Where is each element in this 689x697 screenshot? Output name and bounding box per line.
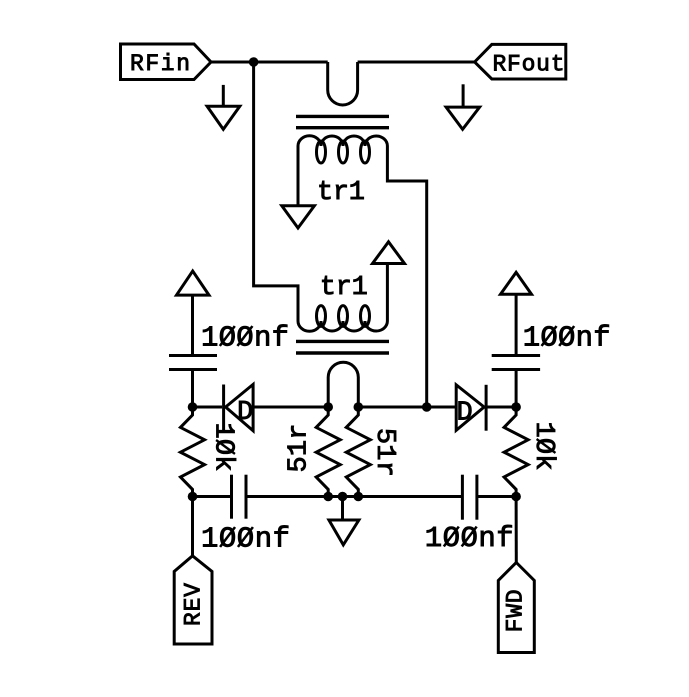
- ground arrow below RFin rail: [207, 85, 240, 129]
- mid bus wires: [193, 406, 223, 409]
- svg-text:1ØØnf: 1ØØnf: [425, 522, 514, 555]
- up arrow above left capacitor: [177, 271, 210, 355]
- resistor R3 51r (mid right): [346, 407, 370, 497]
- port RFin: [121, 44, 212, 80]
- port RFout: [475, 44, 566, 79]
- node junction dot top rail: [249, 57, 259, 67]
- resistor R2 51r (mid left): [316, 407, 340, 497]
- transformer U1 core lines: [296, 116, 389, 127]
- svg-text:RFin: RFin: [130, 51, 190, 77]
- ground arrow below RFout: [446, 84, 480, 129]
- wire to REV port: [191, 497, 194, 556]
- resistor R4 10k (right): [504, 407, 528, 497]
- diode D1 (left, cathode left): [224, 384, 254, 430]
- wire coil right up to arrow (bottom tr1): [386, 264, 389, 322]
- transformer T2 primary arch: [328, 362, 358, 407]
- svg-text:tr1: tr1: [317, 178, 365, 208]
- junction dots mid bus: [188, 402, 198, 412]
- capacitor C1 100nf (left vertical): [169, 356, 217, 408]
- up arrow above right capacitor: [501, 272, 532, 355]
- svg-text:51r: 51r: [369, 428, 399, 477]
- svg-text:1Øk: 1Øk: [207, 423, 237, 472]
- svg-text:1ØØnf: 1ØØnf: [523, 322, 611, 355]
- diode D2 (right, cathode right): [456, 385, 486, 431]
- port FWD: [498, 563, 534, 653]
- transformer U1 primary U (top tr1): [328, 62, 358, 105]
- capacitor C4 100nf (lower right horizontal): [462, 475, 477, 520]
- wire to FWD port: [515, 497, 518, 563]
- transformer T2 secondary coil (bottom tr1): [298, 306, 387, 332]
- wire RFin junction down to bottom tr1: [254, 62, 298, 321]
- svg-text:tr1: tr1: [320, 273, 368, 303]
- wire coil right to mid bus (top tr1): [387, 146, 426, 407]
- junction dots low bus: [188, 492, 198, 502]
- svg-text:RFout: RFout: [493, 52, 565, 78]
- svg-text:1Øk: 1Øk: [528, 422, 558, 471]
- transformer T2 core lines: [296, 341, 389, 353]
- transformer U1 secondary coil: [298, 136, 387, 163]
- svg-text:51r: 51r: [285, 424, 315, 473]
- svg-text:1ØØnf: 1ØØnf: [201, 322, 289, 355]
- wire RFin to junction: [211, 61, 328, 64]
- ground triangle below low bus: [329, 520, 359, 545]
- svg-text:D: D: [237, 398, 253, 428]
- svg-text:FWD: FWD: [503, 589, 529, 632]
- capacitor C2 100nf (right vertical): [492, 356, 540, 408]
- wire top rail right: [358, 61, 475, 64]
- svg-text:D: D: [457, 399, 473, 429]
- wire coil left down to ground (top tr1): [297, 146, 300, 205]
- low bus wires: [193, 495, 232, 498]
- resistor R1 10k (left): [180, 407, 204, 497]
- svg-text:REV: REV: [181, 583, 207, 626]
- up arrow above bottom tr1 right: [373, 242, 405, 264]
- ground triangle below top tr1: [282, 206, 315, 228]
- ground stub below low bus: [341, 497, 344, 519]
- port REV: [174, 556, 212, 644]
- capacitor C3 100nf (lower left horizontal): [232, 475, 247, 519]
- svg-text:1ØØnf: 1ØØnf: [201, 522, 290, 555]
